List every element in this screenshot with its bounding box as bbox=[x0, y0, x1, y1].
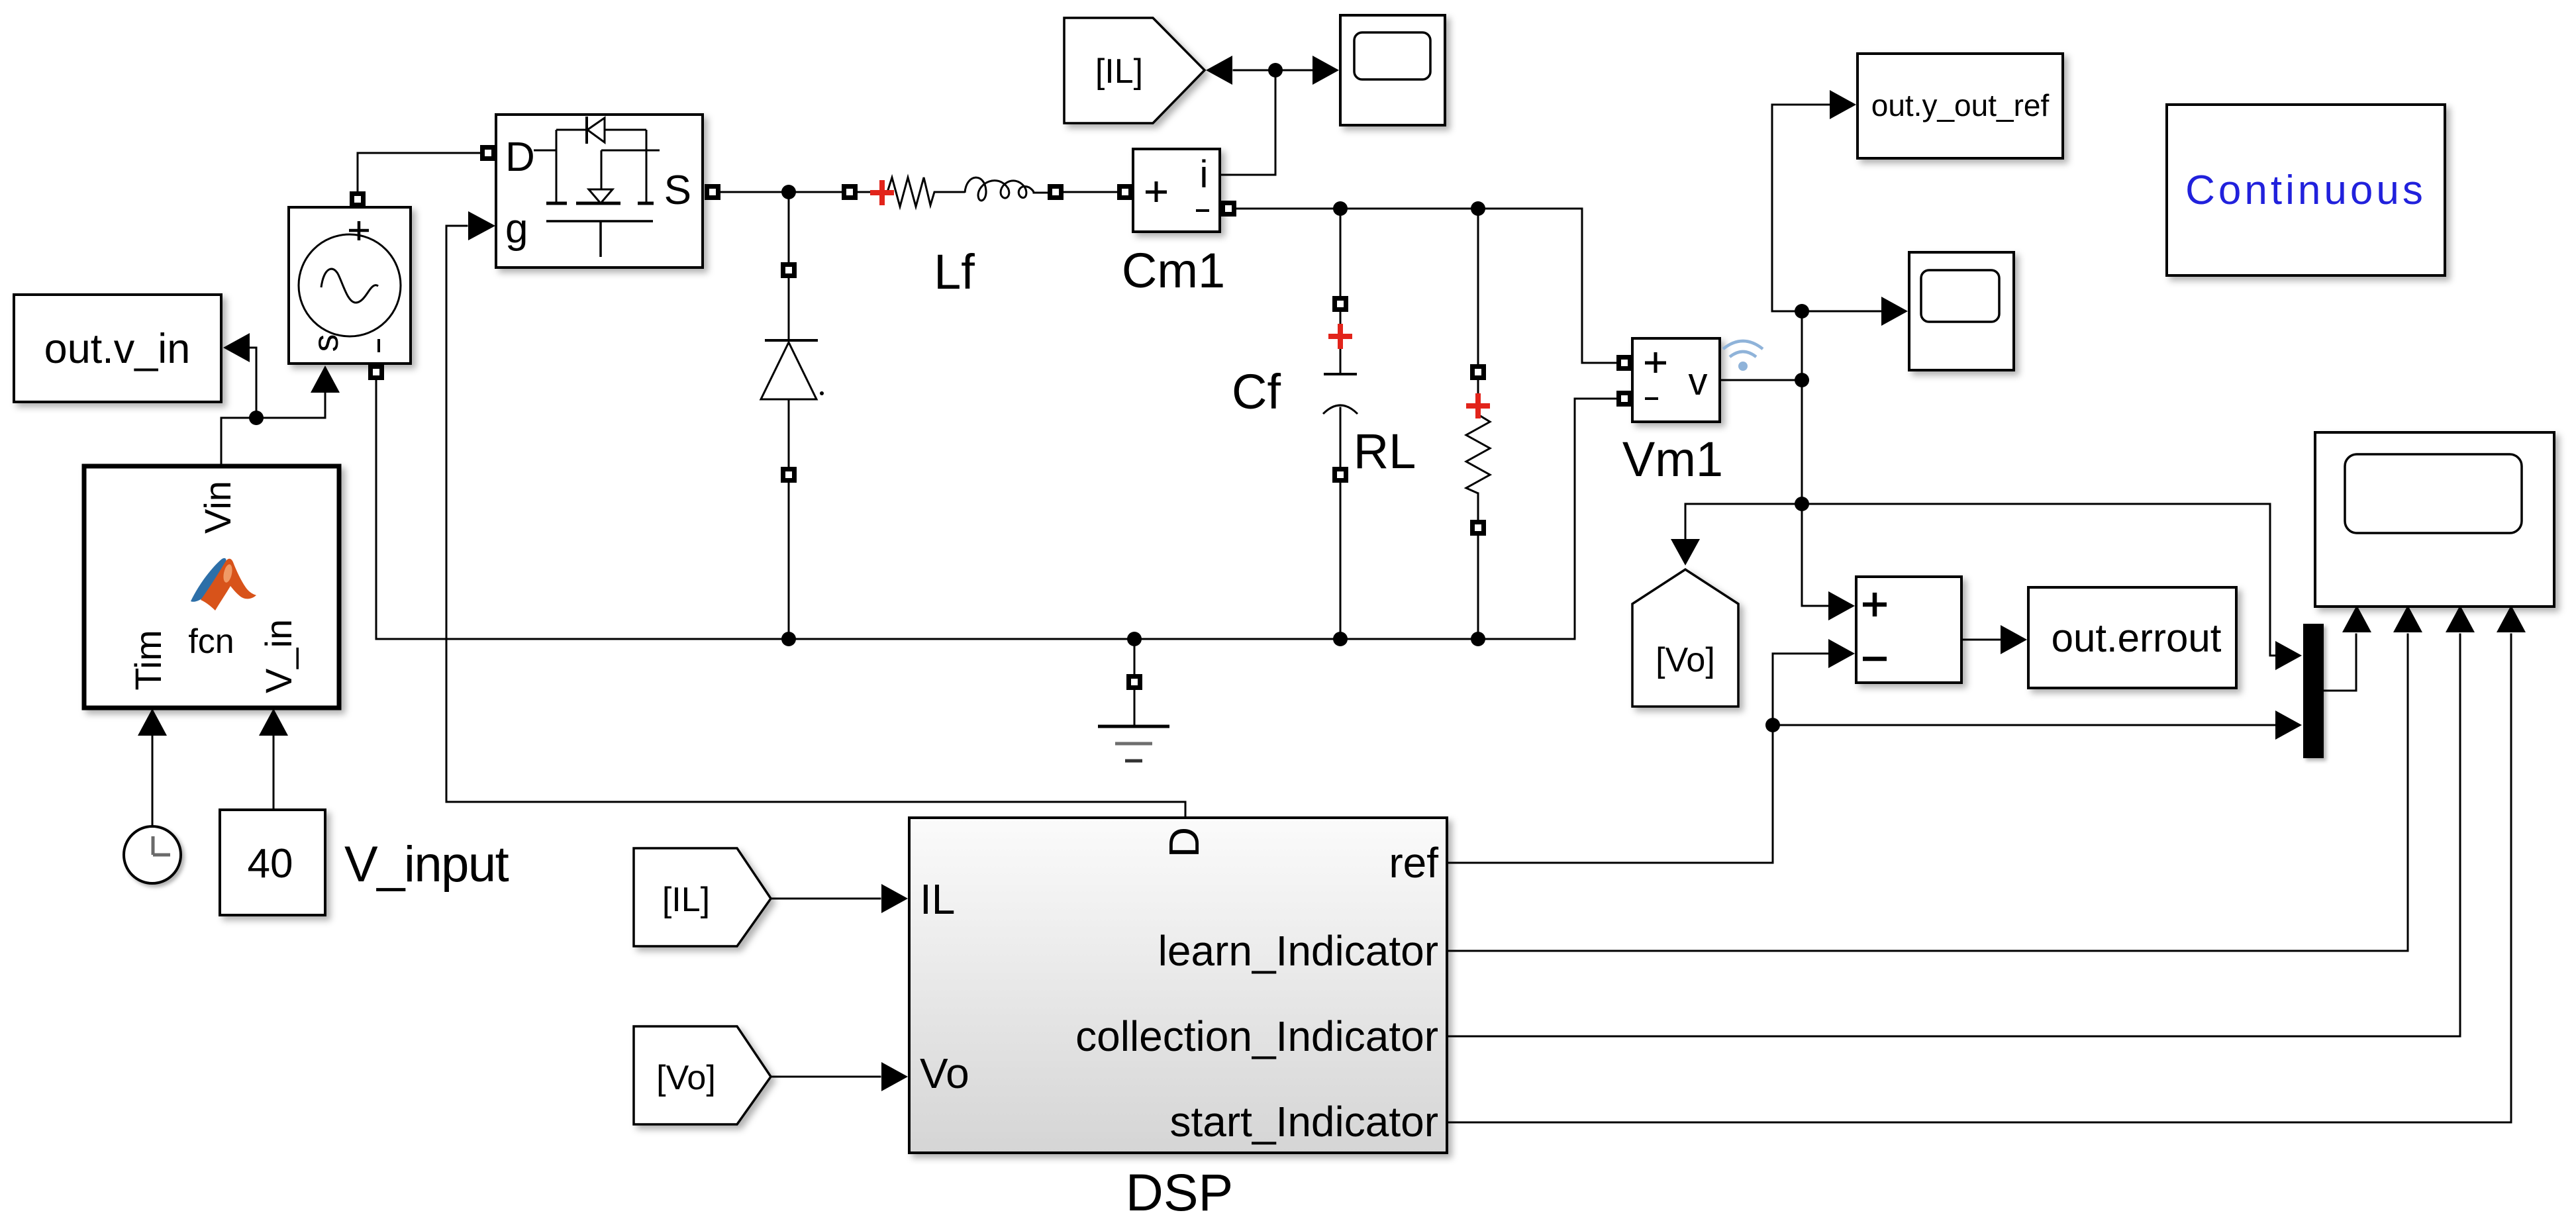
junction RL rail bbox=[1471, 632, 1485, 646]
wire mux output to scope3 bbox=[2324, 634, 2356, 691]
wire rail up to Vm1 - input bbox=[1575, 399, 1616, 639]
wire main vertical node D bbox=[1801, 311, 1803, 606]
arrowhead sum minus input bbox=[1828, 639, 1855, 668]
svg-text:[Vo]: [Vo] bbox=[656, 1059, 716, 1097]
arrowhead sum plus input bbox=[1828, 591, 1855, 620]
wire to scope2 bbox=[1802, 311, 1881, 313]
port Vm1 plus bbox=[1616, 355, 1632, 371]
arrowhead scope3 input4 bbox=[2497, 605, 2526, 632]
wire DSP D output to gate bbox=[446, 226, 1185, 818]
wire ref output bbox=[1447, 654, 1828, 863]
sum block bbox=[1856, 577, 1961, 683]
junction node C bbox=[1268, 63, 1283, 77]
wire out.v_in feed bbox=[250, 348, 256, 418]
wire Cf port to plate bbox=[1340, 311, 1342, 373]
junction node D1 bbox=[1795, 304, 1809, 318]
junction Cf top bbox=[1333, 201, 1348, 216]
svg-text:Cm1: Cm1 bbox=[1122, 243, 1225, 298]
wire bus down to Vm1 + input bbox=[1582, 209, 1616, 363]
wire collection_Indicator to scope3 bbox=[1447, 634, 2460, 1036]
svg-text:Tim: Tim bbox=[127, 630, 169, 690]
svg-text:start_Indicator: start_Indicator bbox=[1169, 1098, 1438, 1146]
arrowhead scope3 input3 bbox=[2446, 605, 2475, 632]
wire node D to mux input1 bbox=[1802, 504, 2275, 656]
wire constant 40 to V_in input bbox=[273, 735, 275, 810]
voltage measurement Vm1 bbox=[1632, 338, 1720, 422]
arrowhead out.y_out_ref input bbox=[1830, 90, 1856, 119]
red plus Lf bbox=[870, 180, 894, 205]
wire ref node to mux input2 bbox=[1773, 724, 2275, 726]
svg-text:S: S bbox=[664, 168, 691, 213]
svg-text:Vin: Vin bbox=[197, 481, 238, 534]
MOSFET block bbox=[496, 115, 703, 268]
wire Lf to Cm1 bbox=[1064, 191, 1117, 193]
diode D1 bbox=[761, 340, 824, 399]
svg-text:[Vo]: [Vo] bbox=[1656, 641, 1715, 679]
wire node C to goto IL tag bbox=[1234, 70, 1275, 72]
wire node A to s input bbox=[256, 368, 325, 418]
wire bottom rail bbox=[376, 638, 1575, 640]
subsystem DSP bbox=[909, 818, 1447, 1153]
port Cm1 minus bbox=[1220, 201, 1236, 217]
svg-text:V_in: V_in bbox=[258, 619, 299, 693]
svg-text:RL: RL bbox=[1354, 424, 1416, 479]
arrowhead DSP IL input bbox=[881, 884, 908, 913]
arrowhead DSP Vo input bbox=[881, 1062, 908, 1091]
MATLAB Function block fcn bbox=[84, 466, 339, 708]
current measurement Cm1 bbox=[1133, 149, 1220, 232]
ground bbox=[1098, 726, 1169, 761]
arrowhead out.errout input bbox=[2001, 625, 2027, 654]
svg-text:ref: ref bbox=[1389, 839, 1438, 887]
port Cm1 plus bbox=[1117, 184, 1133, 200]
wire learn_Indicator to scope3 bbox=[1447, 634, 2408, 951]
series RLC branch Lf bbox=[857, 177, 1064, 207]
wire node D to goto Vo tag bbox=[1685, 504, 1802, 539]
red plus RL bbox=[1466, 393, 1490, 418]
arrowhead g input bbox=[468, 211, 495, 240]
svg-text:v: v bbox=[1689, 360, 1708, 403]
wireless icon bbox=[1723, 341, 1763, 371]
wire node D to sum + input bbox=[1802, 605, 1828, 607]
port Cf bottom bbox=[1332, 467, 1348, 483]
wire RL lower port to rail bbox=[1477, 535, 1479, 639]
junction ground rail bbox=[1127, 632, 1142, 646]
arrowhead scope3 input1 bbox=[2342, 605, 2371, 632]
arrowhead scope1 input bbox=[1313, 56, 1339, 85]
wire Vin output to node A bbox=[221, 418, 256, 466]
wire from tag IL to DSP bbox=[771, 898, 880, 900]
scope1 bbox=[1340, 15, 1445, 125]
port S output bbox=[705, 184, 720, 200]
record block out.errout bbox=[2028, 587, 2236, 688]
svg-text:D: D bbox=[505, 134, 535, 180]
arrowhead scope3 input2 bbox=[2393, 605, 2422, 632]
svg-text:Vm1: Vm1 bbox=[1622, 432, 1723, 487]
svg-text:DSP: DSP bbox=[1126, 1163, 1233, 1222]
record block out.v_in bbox=[14, 295, 221, 402]
svg-text:[IL]: [IL] bbox=[1095, 52, 1143, 91]
wire diode anode to lower port bbox=[788, 400, 790, 467]
port Vm1 minus bbox=[1616, 391, 1632, 407]
wire RL port to resistor bbox=[1477, 379, 1479, 415]
controlled voltage source bbox=[289, 207, 411, 364]
port Cf top bbox=[1332, 296, 1348, 312]
junction Cf rail bbox=[1333, 632, 1348, 646]
wire sum output to out.errout bbox=[1961, 639, 2001, 641]
arrowhead mux input2 bbox=[2275, 710, 2302, 740]
wire diode top port to cathode bbox=[788, 278, 790, 340]
svg-text:Vo: Vo bbox=[920, 1050, 969, 1097]
arrowhead scope2 input bbox=[1881, 297, 1908, 326]
port source bottom bbox=[368, 364, 384, 380]
arrowhead goto Vo bbox=[1671, 539, 1700, 565]
record block out.y_out_ref bbox=[1858, 54, 2063, 158]
port diode bottom bbox=[781, 467, 797, 483]
wire from tag Vo to DSP bbox=[771, 1076, 880, 1078]
wire Cm1 i output bbox=[1220, 78, 1275, 175]
port Lf right bbox=[1048, 184, 1064, 200]
junction node A bbox=[249, 411, 264, 425]
clock block bbox=[124, 826, 181, 883]
junction node B bbox=[781, 185, 796, 199]
port Lf left bbox=[842, 184, 858, 200]
svg-text:D: D bbox=[1160, 827, 1208, 857]
from tag IL bbox=[634, 848, 771, 946]
port RL bottom bbox=[1470, 520, 1486, 536]
svg-text:fcn: fcn bbox=[188, 622, 234, 661]
svg-text:Lf: Lf bbox=[934, 244, 975, 299]
svg-text:Continuous: Continuous bbox=[2185, 168, 2426, 213]
wire ground stem lower bbox=[1134, 690, 1136, 726]
svg-text:learn_Indicator: learn_Indicator bbox=[1158, 927, 1438, 975]
svg-text:40: 40 bbox=[248, 841, 293, 887]
wire diode lower port to rail bbox=[788, 482, 790, 639]
wire Cm1 - output bus bbox=[1236, 208, 1582, 210]
wire ground stem upper bbox=[1134, 639, 1136, 675]
wire source - output down to bottom rail bbox=[375, 380, 377, 639]
red plus Cf bbox=[1328, 324, 1352, 349]
constant block 40 V_input bbox=[220, 810, 325, 915]
wire clock to Tim input bbox=[152, 735, 154, 827]
arrowhead Tim input bbox=[138, 709, 167, 736]
arrowhead mux input1 bbox=[2275, 641, 2302, 670]
wire RL branch top bbox=[1477, 209, 1479, 365]
wire Cf arc to lower port bbox=[1340, 408, 1342, 467]
wire to out.y_out_ref bbox=[1772, 105, 1829, 311]
junction ref node bbox=[1765, 718, 1780, 732]
wire node B down to diode bbox=[788, 192, 790, 263]
wire Cf branch top bbox=[1340, 209, 1342, 297]
arrowhead goto IL bbox=[1206, 56, 1232, 85]
goto tag IL bbox=[1064, 18, 1205, 123]
svg-text:i: i bbox=[1200, 153, 1209, 196]
junction RL top bbox=[1471, 201, 1485, 216]
svg-text:out.v_in: out.v_in bbox=[44, 326, 191, 372]
wire Cf lower port to rail bbox=[1340, 482, 1342, 639]
svg-text:s: s bbox=[306, 334, 346, 352]
wire node C to scope1 bbox=[1275, 70, 1315, 72]
port RL top bbox=[1470, 364, 1486, 380]
wire RL resistor to lower port bbox=[1477, 493, 1479, 520]
svg-text:g: g bbox=[505, 206, 528, 252]
arrowhead into out.v_in bbox=[223, 333, 250, 362]
port source top bbox=[350, 191, 366, 207]
svg-text:[IL]: [IL] bbox=[662, 881, 710, 919]
wire Vm1 output bbox=[1720, 379, 1802, 381]
port diode top bbox=[781, 262, 797, 278]
goto tag Vo bbox=[1632, 569, 1738, 707]
capacitor Cf bbox=[1323, 374, 1358, 414]
arrowhead V_in input bbox=[259, 709, 288, 736]
scope3 bbox=[2315, 432, 2554, 607]
svg-text:out.errout: out.errout bbox=[2052, 616, 2222, 660]
powergui block Continuous bbox=[2167, 105, 2445, 275]
junction node D3 bbox=[1795, 497, 1809, 511]
wire S output to Lf bbox=[720, 191, 842, 193]
arrowhead s input bbox=[311, 366, 340, 393]
svg-text:out.y_out_ref: out.y_out_ref bbox=[1871, 88, 2050, 122]
wire source + output to D input bbox=[358, 153, 480, 192]
junction node D2 bbox=[1795, 373, 1809, 387]
from tag Vo bbox=[634, 1026, 771, 1124]
junction diode rail bbox=[781, 632, 796, 646]
port squares bbox=[350, 145, 1632, 690]
resistor RL bbox=[1466, 415, 1490, 493]
port D input bbox=[480, 145, 496, 161]
port ground bbox=[1126, 674, 1142, 690]
svg-text:IL: IL bbox=[920, 875, 955, 923]
scope2 bbox=[1909, 252, 2014, 370]
wire start_Indicator to scope3 bbox=[1447, 634, 2511, 1122]
svg-text:collection_Indicator: collection_Indicator bbox=[1075, 1012, 1438, 1060]
svg-text:Cf: Cf bbox=[1232, 364, 1281, 419]
mux bbox=[2303, 624, 2324, 758]
svg-text:V_input: V_input bbox=[344, 836, 509, 893]
